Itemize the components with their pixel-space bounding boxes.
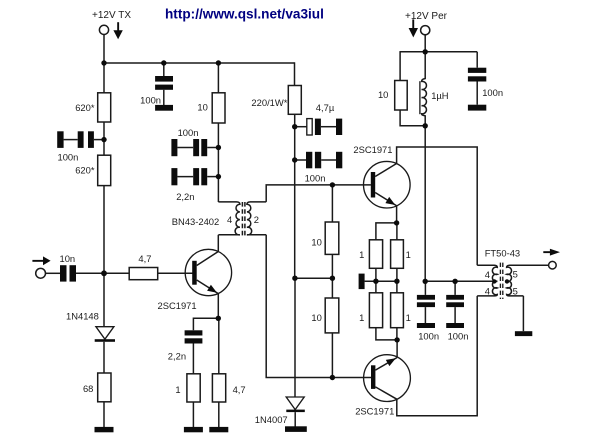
- wire: top rail: [104, 62, 295, 64]
- T1 secondary winding: [247, 202, 266, 235]
- resistor R 620* (top): [98, 93, 111, 122]
- svg-text:FT50-43: FT50-43: [485, 248, 520, 259]
- wire: T1 secondary top to base line: [266, 185, 371, 202]
- capacitor C 100n (bias node bypass): [171, 139, 177, 156]
- svg-text:100n: 100n: [418, 330, 439, 341]
- input terminal: [36, 268, 46, 278]
- wire: 620* top lead: [103, 63, 105, 93]
- T1 primary winding: [218, 202, 240, 235]
- T2 secondary top half: [507, 265, 549, 281]
- svg-text:2SC1971: 2SC1971: [158, 300, 197, 311]
- svg-text:10: 10: [311, 236, 321, 247]
- resistor R 10 (Q3 base feed): [325, 298, 339, 333]
- wire: 4,7 to ground: [218, 402, 220, 427]
- ground (100n left): [57, 131, 63, 148]
- resistor R 1 (Q2 emitter right): [391, 240, 404, 268]
- ground (Per 100n): [468, 105, 486, 111]
- ground (4,7u): [336, 119, 342, 135]
- svg-text:4: 4: [485, 286, 490, 297]
- ground (rail 100n): [155, 105, 173, 111]
- wire: Q3 emitter pair bottoms: [376, 328, 397, 340]
- resistor R 1 (Q2 emitter left): [369, 240, 382, 268]
- capacitor C 2,2n (emitter): [185, 330, 203, 343]
- resistor R 4,7 (base): [129, 268, 158, 280]
- wire: between 620* resistors: [103, 122, 105, 155]
- wire: 10 down to BN43: [217, 123, 219, 202]
- svg-text:100n: 100n: [482, 87, 503, 98]
- wire: Q2 emitter down: [396, 206, 398, 223]
- resistor R 10 (driver collector feed): [217, 63, 219, 93]
- capacitor C 2,2n (bias node bypass): [171, 168, 177, 185]
- capacitor C 100n (output decoupling A): [424, 281, 426, 295]
- wire: T2 secondary bottom to ground: [522, 296, 524, 331]
- wire: emitter mid rail: [365, 280, 397, 282]
- wire: rail corner down to 220/1W: [294, 62, 296, 85]
- resistor R 10 (choke parallel): [399, 51, 401, 80]
- resistor R 68: [98, 373, 111, 402]
- svg-text:620*: 620*: [75, 165, 95, 176]
- T2 primary top half: [477, 265, 497, 281]
- resistor R 4,7 (emitter): [212, 374, 225, 402]
- wire: pair bottoms to mid rail: [375, 268, 377, 281]
- svg-text:100n: 100n: [305, 172, 326, 183]
- ground (bias 100n): [336, 152, 342, 169]
- svg-text:1: 1: [359, 249, 364, 260]
- svg-text:4: 4: [485, 269, 490, 280]
- wire: bias line down to 1N4007: [294, 278, 296, 397]
- inductor L 1uH: [424, 52, 426, 79]
- svg-text:1: 1: [359, 312, 364, 323]
- ground (68): [95, 427, 114, 432]
- ground (output cap A): [417, 323, 435, 328]
- wire: diode to 68: [103, 342, 105, 373]
- svg-text:4,7µ: 4,7µ: [316, 102, 335, 113]
- capacitor C 100n (rail bypass): [163, 63, 165, 76]
- svg-text:100n: 100n: [178, 127, 199, 138]
- resistor R 1 (emitter): [187, 374, 200, 402]
- svg-text:4: 4: [227, 214, 232, 225]
- svg-text:10: 10: [197, 102, 207, 113]
- svg-text:620*: 620*: [75, 102, 95, 113]
- wire: 4,7 to Q1 base: [158, 272, 193, 274]
- svg-text:1N4148: 1N4148: [66, 311, 99, 322]
- wire: 2,2n to R1: [192, 344, 194, 374]
- capacitor C 4,7u (electrolytic bypass): [295, 126, 307, 128]
- ground (output cap B): [446, 323, 464, 328]
- output terminal: [549, 261, 557, 269]
- resistor R 10 (Q2 base feed): [331, 185, 333, 222]
- svg-text:10: 10: [378, 89, 388, 100]
- wire: Q3 collector to FT50-43: [397, 296, 477, 416]
- svg-text:2,2n: 2,2n: [168, 350, 186, 361]
- capacitor C 100n (620 junction to ground): [78, 131, 94, 148]
- transistor Q1 2SC1971 (driver): [158, 249, 232, 310]
- svg-text:+12V TX: +12V TX: [92, 10, 131, 21]
- wire: emitter to 1 ohm pair tops: [376, 223, 397, 240]
- wire: 220/1W down bias line: [294, 114, 296, 278]
- wire: T1 secondary bottom down and to Q3 base: [266, 235, 371, 378]
- svg-text:2,2n: 2,2n: [176, 191, 194, 202]
- +12V TX terminal: [99, 25, 108, 34]
- svg-text:100n: 100n: [58, 151, 79, 162]
- T2 secondary bottom half: [507, 281, 524, 296]
- diode D 1N4007: [255, 397, 305, 425]
- wire: Q2 collector to FT50-43: [397, 147, 478, 265]
- transistor Q3 2SC1971 (bottom final): [355, 355, 410, 417]
- svg-text:http://www.qsl.net/va3iul: http://www.qsl.net/va3iul: [165, 6, 324, 21]
- wire: 68 to ground: [103, 402, 105, 428]
- svg-text:5: 5: [513, 286, 518, 297]
- svg-text:220/1W*: 220/1W*: [251, 97, 287, 108]
- +12V Per terminal: [421, 26, 430, 35]
- T2 core: [499, 263, 501, 299]
- svg-text:1N4007: 1N4007: [255, 414, 288, 425]
- svg-text:+12V Per: +12V Per: [405, 11, 448, 22]
- ground (emitter mid rail): [359, 274, 365, 290]
- wire: R1 to ground: [192, 402, 194, 427]
- wire: TX terminal to rail: [103, 35, 105, 64]
- wire: input terminal to 10n: [46, 272, 61, 274]
- ground (4,7): [209, 427, 228, 432]
- svg-text:4,7: 4,7: [233, 384, 246, 395]
- wire: Per rail: [400, 51, 477, 53]
- wire: Q1 collector up to BN43: [217, 235, 219, 252]
- capacitor C 100n (Per rail): [476, 52, 478, 68]
- svg-text:1: 1: [175, 384, 180, 395]
- wire: Q1 emitter down: [217, 294, 219, 319]
- svg-text:100n: 100n: [140, 95, 161, 106]
- wire: to Q3 emitter: [396, 340, 398, 358]
- +12V TX arrow: [113, 22, 122, 39]
- capacitor C 100n (output decoupling B): [454, 281, 456, 295]
- svg-text:1: 1: [406, 249, 411, 260]
- wire: emitter junction to 4,7: [218, 318, 220, 374]
- output arrow: [543, 249, 560, 256]
- wire: 1N4007 to ground: [294, 412, 296, 427]
- capacitor C 10n: [60, 265, 76, 281]
- capacitor C 100n (bias line bypass): [295, 159, 306, 161]
- wire: 10n to node: [76, 272, 129, 274]
- input arrow: [32, 256, 50, 265]
- svg-text:1: 1: [406, 312, 411, 323]
- wire: Per terminal down: [424, 35, 426, 52]
- svg-text:4,7: 4,7: [138, 253, 151, 264]
- svg-text:100n: 100n: [448, 330, 469, 341]
- resistor R 220/1W*: [288, 86, 301, 115]
- diode D 1N4148: [66, 311, 115, 342]
- resistor R 620* (bottom): [98, 155, 111, 185]
- svg-text:BN43-2402: BN43-2402: [172, 216, 219, 227]
- svg-text:2SC1971: 2SC1971: [355, 406, 394, 417]
- T2 primary bottom half: [477, 281, 497, 296]
- svg-text:1µH: 1µH: [431, 90, 448, 101]
- resistor R 1 (Q3 emitter left): [375, 281, 377, 293]
- svg-text:2SC1971: 2SC1971: [353, 144, 392, 155]
- ground (1N4007): [285, 426, 307, 432]
- +12V Per arrow: [409, 19, 418, 37]
- svg-text:2: 2: [254, 214, 259, 225]
- svg-text:10: 10: [311, 312, 321, 323]
- wire: emitter junction to 2,2n branch: [193, 318, 218, 330]
- wire: 620* bottom to input node: [103, 186, 105, 327]
- svg-text:5: 5: [513, 269, 518, 280]
- wire: center tap rail: [425, 280, 494, 282]
- wire: Per feed down to center tap rail: [424, 126, 426, 281]
- ground (R1): [184, 427, 203, 432]
- svg-text:68: 68: [83, 383, 93, 394]
- wire: bias junction to 10/10 divider: [295, 277, 333, 279]
- transistor Q2 2SC1971 (top final): [353, 144, 410, 208]
- svg-text:10n: 10n: [60, 253, 76, 264]
- ground (T2 secondary): [515, 331, 532, 336]
- resistor R 1 (Q3 emitter right): [396, 281, 398, 293]
- T1 core: [241, 202, 243, 236]
